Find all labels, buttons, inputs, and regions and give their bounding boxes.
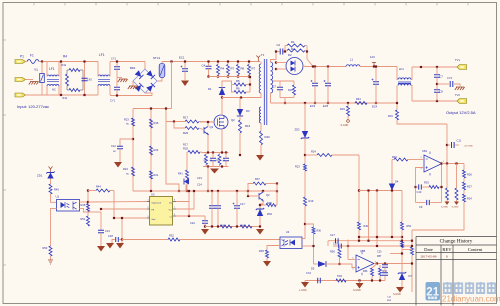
wire LF1 bottom-right leg bbox=[58, 86, 60, 95]
wire bottom rail LF2 to bridge bbox=[110, 95, 152, 97]
svg-text:Date: Date bbox=[424, 247, 433, 252]
svg-text:2: 2 bbox=[148, 207, 149, 209]
ground at sense network bbox=[210, 169, 219, 174]
svg-text:C18: C18 bbox=[108, 234, 113, 238]
wire output return to TV2 bbox=[412, 100, 458, 102]
wire vertical x368 bbox=[368, 191, 370, 241]
svg-text:R17: R17 bbox=[183, 143, 188, 147]
wire to L-GND bbox=[304, 281, 306, 283]
svg-text:R37: R37 bbox=[255, 177, 260, 181]
resistor R1 snubber bbox=[287, 44, 305, 47]
wire to opto U4 bbox=[180, 239, 280, 241]
wire bottom rail LF1 to LF2 bbox=[61, 94, 98, 96]
wire EC1 bottom leg bbox=[184, 71, 186, 80]
wire ZD1 to R40 bbox=[50, 179, 52, 185]
svg-text:C13: C13 bbox=[197, 176, 202, 180]
svg-text:R27: R27 bbox=[467, 185, 472, 189]
wire output to R36A bbox=[372, 264, 377, 269]
wire L1 to output choke bbox=[360, 66, 397, 68]
svg-text:NC: NC bbox=[113, 151, 117, 153]
wire U5B output bbox=[374, 263, 412, 265]
svg-text:21dianyuan.com: 21dianyuan.com bbox=[442, 295, 500, 304]
wire Vcc bus rail bbox=[133, 190, 277, 192]
wire opto to IC pin1 bbox=[88, 201, 147, 204]
wire R11 network left leg bbox=[60, 62, 62, 96]
wire R40 to opto bbox=[51, 194, 57, 202]
title block table bbox=[416, 237, 497, 306]
resistor R44 bbox=[96, 189, 110, 192]
wire D7 to ground bbox=[401, 280, 403, 287]
svg-text:L-GND: L-GND bbox=[299, 289, 307, 292]
wire snubber to return rail bbox=[284, 98, 286, 104]
wire into rectifier anode 2 bbox=[276, 68, 287, 70]
svg-text:C5: C5 bbox=[223, 160, 225, 162]
resistor R7 bbox=[227, 65, 230, 75]
svg-text:R44: R44 bbox=[96, 185, 101, 189]
wire R51 column top bbox=[401, 191, 403, 223]
wire lower fb line bbox=[359, 190, 402, 192]
svg-text:R51: R51 bbox=[81, 217, 86, 221]
resistor R36 sec bbox=[312, 227, 315, 234]
chassis ground at pin2 bbox=[29, 82, 39, 85]
wire LF2 top-left leg bbox=[97, 62, 99, 77]
wire LF1 top-left leg bbox=[46, 62, 48, 77]
resistor R23 fb bbox=[304, 164, 307, 171]
svg-text:R53: R53 bbox=[43, 246, 48, 250]
wire primary top to bus bbox=[260, 62, 262, 65]
ground at C13 bbox=[97, 246, 105, 252]
wire R16 column from return rail bbox=[396, 103, 398, 110]
svg-text:Y1: Y1 bbox=[34, 68, 38, 72]
wire to C12 bbox=[120, 139, 133, 146]
wire vertical drop from DC bus bbox=[171, 62, 173, 109]
wire Q3 base bbox=[248, 195, 259, 197]
wire R24 down to lower bus bbox=[358, 155, 360, 222]
capacitor C6 sense bbox=[210, 158, 216, 161]
wire R5 R6 right join to rail bbox=[249, 77, 251, 92]
svg-text:U3: U3 bbox=[151, 193, 155, 197]
svg-text:D2: D2 bbox=[288, 53, 292, 57]
svg-text:D1: D1 bbox=[208, 87, 212, 91]
wire R51 column bottom bbox=[401, 230, 403, 273]
svg-text:C19: C19 bbox=[333, 242, 338, 246]
svg-text:P1: P1 bbox=[20, 55, 24, 59]
wire vcc return rail bbox=[205, 226, 260, 228]
watermark text 世纪电源网 bbox=[443, 282, 496, 294]
svg-text:R36: R36 bbox=[317, 230, 322, 233]
ground at C18 left bbox=[106, 243, 114, 249]
svg-text:R51: R51 bbox=[407, 224, 412, 228]
wire sense ground to vcc rail bbox=[207, 167, 209, 192]
resistor R32 bbox=[168, 238, 180, 241]
svg-text:R15: R15 bbox=[340, 107, 345, 111]
wire bus y246 bbox=[333, 245, 412, 247]
svg-text:U5B: U5B bbox=[360, 249, 365, 253]
svg-text:S-GND: S-GND bbox=[353, 289, 361, 292]
resistor R36A bbox=[371, 268, 374, 276]
wire opto LED cathode down bbox=[51, 208, 57, 246]
wire C13 to ground bbox=[100, 233, 102, 246]
resistor R46 opto load bbox=[87, 204, 90, 212]
svg-text:C24: C24 bbox=[190, 221, 195, 225]
wire x166 column bbox=[166, 109, 179, 192]
svg-text:Input: 120-277vac: Input: 120-277vac bbox=[17, 104, 49, 109]
svg-text:R32: R32 bbox=[169, 234, 174, 238]
svg-text:T1: T1 bbox=[261, 53, 265, 57]
wire opto cathode to R35 bbox=[267, 246, 280, 251]
svg-text:D4: D4 bbox=[395, 180, 399, 184]
resistor R46 divider bbox=[150, 119, 153, 128]
resistor R5 bbox=[234, 83, 246, 86]
svg-text:R5: R5 bbox=[236, 79, 240, 83]
resistor R41 vcc bbox=[240, 225, 252, 228]
resistor R16 sec bbox=[396, 110, 399, 120]
svg-text:ZD2: ZD2 bbox=[267, 212, 272, 216]
connector TV2 bbox=[457, 99, 467, 104]
ground S-GND 2 bbox=[454, 202, 459, 205]
resistor R51 bbox=[87, 216, 90, 226]
wire LF2 bottom-right leg bbox=[109, 86, 111, 95]
svg-text:U5A: U5A bbox=[422, 149, 427, 153]
wire C18 left to ground bbox=[112, 240, 115, 244]
svg-text:R35: R35 bbox=[259, 249, 264, 253]
resistor divider to S-GND 1 bbox=[446, 164, 448, 189]
svg-text:CX0: CX0 bbox=[87, 79, 92, 82]
wire x412 column lower bbox=[411, 255, 413, 292]
wire R5 R6 left join bbox=[232, 85, 235, 93]
junction DC bus at x170 bbox=[170, 60, 172, 62]
resistor R6 bbox=[234, 91, 246, 94]
wire diagonal to output rail bbox=[307, 59, 313, 67]
wire D6 stub bbox=[185, 185, 187, 192]
wire R18 to sense column bbox=[200, 151, 203, 154]
svg-text:LF1: LF1 bbox=[399, 67, 404, 71]
wire choke right top leg bbox=[411, 67, 412, 80]
svg-text:7: 7 bbox=[174, 207, 175, 209]
resistor R19 bbox=[304, 197, 307, 206]
resistor R53 bbox=[49, 246, 52, 256]
wire top rail LF1 to LF2 bbox=[61, 61, 98, 63]
svg-text:C14: C14 bbox=[197, 183, 202, 187]
wire primary bottom to Q2 drain bbox=[222, 93, 261, 98]
resistor R24 divider bbox=[150, 146, 153, 155]
wire secondary snubber top bbox=[273, 80, 294, 82]
svg-text:R61: R61 bbox=[356, 97, 361, 101]
wire R16 to sense rail bbox=[239, 133, 241, 155]
svg-text:R6: R6 bbox=[236, 87, 240, 91]
svg-text:Change History: Change History bbox=[440, 239, 473, 245]
svg-text:REV: REV bbox=[442, 247, 452, 252]
wire pin3 bottom rail bbox=[26, 94, 62, 96]
wire top rail LF2 to bridge bbox=[110, 61, 145, 63]
wire opamp output bbox=[442, 163, 464, 165]
wire opto emitter to column bbox=[302, 245, 314, 247]
svg-text:ZD3: ZD3 bbox=[295, 128, 300, 132]
svg-text:CY1: CY1 bbox=[111, 57, 117, 61]
svg-text:Dis: Dis bbox=[169, 203, 172, 205]
svg-text:R16: R16 bbox=[388, 114, 393, 118]
wire noninverting input bbox=[340, 264, 357, 268]
resistor R18 lower bbox=[188, 151, 200, 154]
svg-text:R19: R19 bbox=[309, 199, 314, 203]
svg-text:C20: C20 bbox=[377, 251, 382, 254]
node junction at F1 output bbox=[41, 60, 43, 62]
svg-text:2017-05-09: 2017-05-09 bbox=[421, 255, 437, 259]
wire IC Dis pin up bbox=[176, 191, 189, 202]
wire R37 to collector node bbox=[266, 183, 277, 185]
svg-text:C6: C6 bbox=[210, 160, 212, 162]
svg-text:C7: C7 bbox=[440, 75, 444, 79]
wire output rail to L1 bbox=[305, 66, 346, 68]
svg-text:C12: C12 bbox=[111, 144, 116, 148]
svg-text:R4: R4 bbox=[221, 67, 225, 71]
wire opto collector out bbox=[80, 201, 89, 203]
wire x392 column lower bbox=[391, 191, 393, 238]
wire gate bbox=[200, 121, 214, 123]
resistor R7 second bbox=[248, 65, 251, 75]
svg-text:R11: R11 bbox=[63, 96, 68, 100]
resistor R2 snubber bbox=[287, 49, 305, 52]
wire bridge positive to NTC1 bbox=[157, 78, 162, 81]
svg-text:R24: R24 bbox=[123, 167, 128, 171]
wire opto emitter out bbox=[80, 208, 89, 212]
wire bridge AC2 stub bbox=[132, 81, 134, 86]
resistor R11 bottom bbox=[69, 89, 80, 92]
ground L-GND bbox=[301, 282, 309, 288]
wire down to opamp output node bbox=[446, 124, 448, 164]
svg-text:R11: R11 bbox=[62, 63, 67, 67]
wire x277 column bbox=[276, 184, 278, 206]
T1 auxiliary winding bbox=[259, 107, 261, 123]
wire to R51 column bbox=[88, 211, 101, 213]
resistor R21 divider bbox=[150, 171, 153, 179]
wire gate branch from x166 bbox=[166, 121, 185, 123]
wire C11 stub bbox=[455, 144, 459, 146]
wire CY1 top leg bbox=[116, 62, 118, 67]
wire sense bottom rail bbox=[203, 166, 229, 168]
wire R44 column down bbox=[113, 191, 115, 219]
wire bottom signal rail bbox=[122, 239, 168, 241]
svg-text:R40: R40 bbox=[265, 135, 271, 139]
wire NTC1 to DC rail bbox=[161, 62, 163, 64]
resistor chain R26 R27 R24 bbox=[463, 164, 465, 171]
svg-text:R1: R1 bbox=[291, 40, 295, 44]
wire drain bbox=[221, 98, 223, 116]
net symbol at T1 bbox=[256, 56, 260, 62]
svg-text:S-GND: S-GND bbox=[441, 207, 448, 209]
ground at ZD2 column bbox=[256, 229, 264, 235]
wire R11 network right leg bbox=[84, 62, 86, 96]
svg-text:EC5: EC5 bbox=[323, 104, 329, 108]
svg-text:S-GND: S-GND bbox=[452, 207, 459, 209]
svg-text:D3: D3 bbox=[246, 109, 250, 113]
wire to S-GND mid bbox=[359, 281, 361, 284]
wire bottom rail y280 bbox=[305, 280, 385, 282]
wire to ground right bbox=[121, 240, 123, 244]
svg-text:Vcc: Vcc bbox=[169, 210, 172, 212]
wire Q1 emitter down bbox=[207, 135, 209, 153]
wire R17 to gate bbox=[199, 121, 214, 124]
resistor R61 shunt bbox=[355, 102, 367, 105]
resistor R12 sense bbox=[205, 155, 208, 165]
svg-text:R2: R2 bbox=[291, 47, 295, 51]
svg-text:F1: F1 bbox=[30, 54, 34, 58]
wire CY1 mid leg bbox=[116, 69, 118, 87]
T1 secondary winding bbox=[271, 62, 273, 93]
svg-text:Q2: Q2 bbox=[231, 118, 235, 122]
svg-text:Cs: Cs bbox=[170, 217, 172, 219]
svg-text:R49: R49 bbox=[364, 225, 369, 228]
connector P1 pin 1 bbox=[15, 60, 26, 64]
svg-text:R33: R33 bbox=[424, 181, 429, 185]
wire gnd to bottom rail bbox=[121, 218, 123, 240]
resistor R40 opto bbox=[49, 184, 52, 194]
wire feedback column bbox=[441, 164, 443, 203]
svg-text:R4: R4 bbox=[63, 55, 67, 59]
wire D5 right bbox=[326, 263, 340, 265]
junction C11 branch bbox=[446, 144, 448, 146]
connector P1 pin 3 bbox=[15, 93, 26, 97]
small ground marker bbox=[48, 260, 53, 264]
svg-text:TV1: TV1 bbox=[455, 58, 460, 62]
chassis ground at output bbox=[455, 87, 465, 90]
wire R53 to ground bbox=[50, 256, 52, 260]
svg-text:R40: R40 bbox=[54, 188, 59, 192]
svg-text:Output 12V/2.5A: Output 12V/2.5A bbox=[446, 110, 476, 115]
wire rail to R37 bbox=[248, 184, 253, 192]
svg-text:S-GND: S-GND bbox=[341, 124, 349, 127]
svg-text:R16: R16 bbox=[245, 124, 251, 128]
svg-text:CY2: CY2 bbox=[447, 76, 453, 80]
svg-text:1: 1 bbox=[443, 161, 444, 163]
wire vertical x377 bbox=[376, 191, 378, 247]
wire to CY2 bbox=[437, 83, 449, 85]
svg-text:R18: R18 bbox=[183, 147, 188, 151]
diode D6 bbox=[184, 179, 189, 185]
wire LF1 top-right leg bbox=[58, 62, 60, 77]
svg-text:S-GND: S-GND bbox=[393, 293, 401, 296]
wire D1 anode stub bbox=[221, 95, 223, 98]
wire C4 bottom leg bbox=[208, 69, 210, 77]
svg-text:1: 1 bbox=[148, 200, 149, 202]
resistor R40 vcc bbox=[220, 225, 232, 228]
svg-text:R13: R13 bbox=[216, 160, 219, 162]
wire bus y237 bbox=[359, 236, 402, 238]
resistor R20 bbox=[185, 127, 199, 130]
wire Q3 collector bbox=[262, 191, 264, 192]
wire x305 column mid bbox=[304, 171, 306, 197]
wire x189 column bbox=[188, 202, 190, 217]
svg-text:C17: C17 bbox=[240, 202, 245, 206]
wire LF2 bottom-left leg bbox=[97, 86, 99, 95]
svg-text:D5: D5 bbox=[311, 267, 315, 271]
wire inverting input from x348 bbox=[348, 259, 356, 261]
resistor R17 gate bbox=[185, 120, 199, 123]
svg-text:R46: R46 bbox=[154, 121, 159, 125]
resistor R51 lower bbox=[401, 241, 404, 248]
LF2 top winding bbox=[98, 75, 110, 77]
wire Q1 collector to gate bbox=[207, 122, 209, 127]
ground at R35 bbox=[263, 261, 271, 267]
svg-text:R57: R57 bbox=[377, 255, 382, 258]
wire R36 column down to D5 line bbox=[313, 234, 315, 264]
svg-text:C8: C8 bbox=[440, 90, 444, 94]
wire EC1 top leg bbox=[184, 62, 186, 69]
svg-text:EC4: EC4 bbox=[372, 105, 378, 109]
wire feedback bus y108 bbox=[133, 108, 172, 110]
wire aux winding bottom bbox=[260, 123, 262, 131]
resistor R24 NC bbox=[132, 167, 135, 176]
svg-text:8: 8 bbox=[174, 200, 175, 202]
svg-text:BD1: BD1 bbox=[130, 66, 136, 70]
wire LF2 top-right leg bbox=[109, 62, 111, 77]
wire to C11 bbox=[447, 144, 450, 146]
S-GND net marker at R15 bbox=[347, 120, 350, 123]
resistor R35 bbox=[266, 250, 269, 258]
svg-text:+5V-GND: +5V-GND bbox=[464, 146, 474, 148]
ground at C18 right bbox=[116, 243, 124, 249]
capacitor C5 sense bbox=[223, 158, 229, 161]
wire secondary return rail bbox=[271, 102, 398, 104]
svg-text:3: 3 bbox=[421, 168, 422, 170]
net symbol VCC bbox=[49, 167, 53, 173]
wire vertical across Y1 bbox=[41, 62, 43, 96]
svg-text:R56: R56 bbox=[330, 250, 335, 254]
wire output rail to TV1 bbox=[412, 66, 458, 68]
wire R1 R2 left join bbox=[284, 46, 286, 52]
svg-text:EC1: EC1 bbox=[179, 56, 185, 60]
wire CY2 to chassis bbox=[454, 84, 460, 86]
wire left feedback column bbox=[150, 109, 152, 192]
svg-text:R23: R23 bbox=[124, 118, 129, 122]
ground at EC1 bbox=[181, 81, 189, 87]
wire x412 column bbox=[411, 230, 413, 247]
ground S-GND 1 bbox=[445, 202, 450, 205]
wire noninverting input down bbox=[416, 168, 425, 203]
LF1 top winding bbox=[47, 75, 59, 77]
LF2 bottom winding bbox=[98, 85, 110, 87]
wire bottom rail into bridge bbox=[145, 93, 152, 96]
resistor R49 bbox=[358, 222, 361, 230]
wire D3 cathode to primary return bbox=[239, 98, 241, 110]
svg-text:C11: C11 bbox=[457, 139, 462, 143]
resistor R40 aux bbox=[260, 131, 263, 145]
svg-text:EC3: EC3 bbox=[310, 104, 316, 108]
svg-text:6: 6 bbox=[174, 214, 175, 216]
svg-text:L1: L1 bbox=[350, 58, 354, 62]
wire into rectifier anode 1 bbox=[276, 62, 287, 64]
wire rectifier cathode out bbox=[303, 65, 306, 68]
ground S-GND at D7 bbox=[396, 287, 404, 293]
wire R34 left down to D4 bbox=[391, 160, 393, 184]
wire CY1 midpoint to chassis bbox=[117, 77, 122, 79]
svg-text:R17: R17 bbox=[183, 116, 189, 120]
svg-text:R24: R24 bbox=[467, 197, 472, 201]
choke bottom winding bbox=[398, 84, 411, 86]
wire choke left top leg bbox=[397, 67, 398, 80]
junction C12 branch bbox=[132, 138, 134, 140]
svg-text:R7: R7 bbox=[252, 67, 256, 71]
T1 primary winding bbox=[259, 64, 261, 93]
svg-text:R8: R8 bbox=[241, 67, 245, 71]
wire ZD3 to R23 bbox=[304, 138, 306, 164]
svg-text:NTC1: NTC1 bbox=[153, 56, 161, 60]
svg-text:R24: R24 bbox=[154, 148, 159, 152]
resistor R16 aux bbox=[239, 120, 242, 133]
wire choke right bottom leg bbox=[411, 86, 412, 102]
svg-text:12V: 12V bbox=[370, 55, 375, 59]
svg-text:3: 3 bbox=[148, 216, 149, 218]
